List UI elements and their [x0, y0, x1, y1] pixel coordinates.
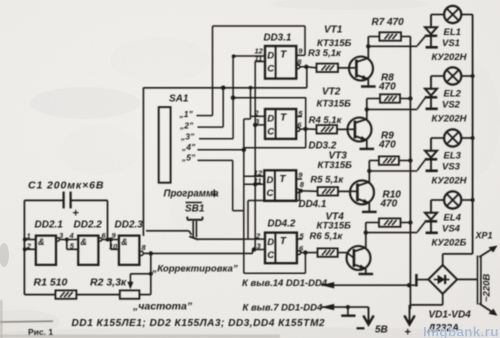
- svg-text:Imgbank.ru: Imgbank.ru: [423, 325, 499, 338]
- svg-text:SA1: SA1: [169, 94, 189, 105]
- svg-text:T: T: [280, 50, 287, 61]
- svg-text:EL1: EL1: [444, 27, 461, 38]
- svg-text:D: D: [267, 114, 274, 125]
- svg-text:VS2: VS2: [442, 100, 461, 111]
- svg-text:EL3: EL3: [444, 151, 462, 162]
- svg-text:„4”: „4”: [181, 142, 196, 152]
- svg-text:C: C: [267, 64, 274, 75]
- svg-text:VS3: VS3: [442, 162, 461, 173]
- svg-text:R1 510: R1 510: [34, 277, 68, 289]
- svg-text:C: C: [267, 188, 274, 199]
- svg-text:VD1-VD4: VD1-VD4: [429, 310, 472, 321]
- svg-text:R2 3,3к: R2 3,3к: [90, 277, 127, 289]
- svg-text:„5”: „5”: [181, 153, 196, 163]
- svg-text:+: +: [405, 327, 411, 338]
- svg-text:DD2.2: DD2.2: [74, 220, 103, 231]
- svg-text:C1 200мк×6В: C1 200мк×6В: [28, 180, 104, 192]
- svg-text:К выв.14 DD1-DD4: К выв.14 DD1-DD4: [242, 278, 328, 289]
- svg-text:КТ315Б: КТ315Б: [318, 160, 353, 171]
- svg-text:R6 5,1к: R6 5,1к: [310, 231, 344, 242]
- svg-text:R4 5,1к: R4 5,1к: [309, 115, 343, 126]
- svg-text:DD4.1: DD4.1: [299, 199, 327, 210]
- svg-text:„частота”: „частота”: [132, 301, 193, 313]
- svg-text:„2”: „2”: [179, 121, 194, 131]
- svg-text:T: T: [280, 236, 287, 247]
- svg-text:R5 5,1к: R5 5,1к: [310, 174, 344, 185]
- svg-text:T: T: [280, 113, 287, 124]
- svg-text:КТ315Б: КТ315Б: [317, 99, 352, 110]
- svg-text:SB1: SB1: [185, 204, 205, 215]
- svg-text:D: D: [267, 237, 274, 248]
- svg-text:470: 470: [378, 140, 396, 151]
- svg-text:&: &: [121, 237, 128, 247]
- svg-text:КУ202Н: КУ202Н: [432, 176, 468, 187]
- svg-text:XP1: XP1: [475, 231, 493, 241]
- svg-text:VS4: VS4: [442, 224, 461, 235]
- svg-text:VT1: VT1: [324, 25, 343, 36]
- svg-text:Рис. 1: Рис. 1: [28, 327, 53, 337]
- svg-text:DD4.2: DD4.2: [268, 219, 296, 230]
- svg-text:T: T: [279, 174, 286, 185]
- svg-text:DD2.3: DD2.3: [115, 220, 144, 231]
- svg-text:470: 470: [378, 82, 396, 93]
- svg-text:„1”: „1”: [179, 109, 194, 119]
- svg-text:„Корректировка”: „Корректировка”: [152, 264, 238, 275]
- svg-text:Программа: Программа: [164, 189, 220, 200]
- svg-text:R7 470: R7 470: [372, 17, 405, 28]
- svg-text:EL4: EL4: [444, 213, 462, 224]
- svg-text:C: C: [267, 250, 274, 261]
- svg-text:КУ202Б: КУ202Б: [432, 238, 467, 249]
- svg-text:VT2: VT2: [322, 87, 341, 98]
- svg-text:4: 4: [69, 231, 75, 240]
- svg-text:КУ202Н: КУ202Н: [432, 52, 468, 63]
- svg-text:EL2: EL2: [444, 89, 462, 100]
- svg-text:C: C: [267, 127, 274, 138]
- svg-text:~220В: ~220В: [482, 274, 493, 302]
- svg-text:D: D: [267, 51, 274, 62]
- svg-text:VS1: VS1: [442, 38, 460, 49]
- svg-text:КУ202Н: КУ202Н: [432, 114, 468, 125]
- svg-text:470: 470: [380, 199, 398, 210]
- svg-text:+: +: [73, 208, 79, 220]
- svg-text:2: 2: [26, 242, 32, 251]
- svg-text:R3 5,1к: R3 5,1к: [308, 48, 342, 59]
- svg-text:1: 1: [27, 232, 31, 241]
- svg-text:DD2.1: DD2.1: [35, 220, 64, 231]
- svg-text:DD3.1: DD3.1: [264, 33, 292, 44]
- svg-text:К выв.7 DD1-DD4: К выв.7 DD1-DD4: [243, 303, 324, 314]
- svg-text:DD1 К155ЛЕ1; DD2 К155ЛА3; DD3,: DD1 К155ЛЕ1; DD2 К155ЛА3; DD3,DD4 К155ТМ…: [72, 318, 326, 329]
- svg-text:&: &: [80, 237, 87, 247]
- svg-text:&: &: [38, 237, 45, 247]
- svg-text:D: D: [267, 175, 274, 186]
- svg-text:5В: 5В: [375, 325, 388, 336]
- svg-text:„3”: „3”: [180, 131, 195, 141]
